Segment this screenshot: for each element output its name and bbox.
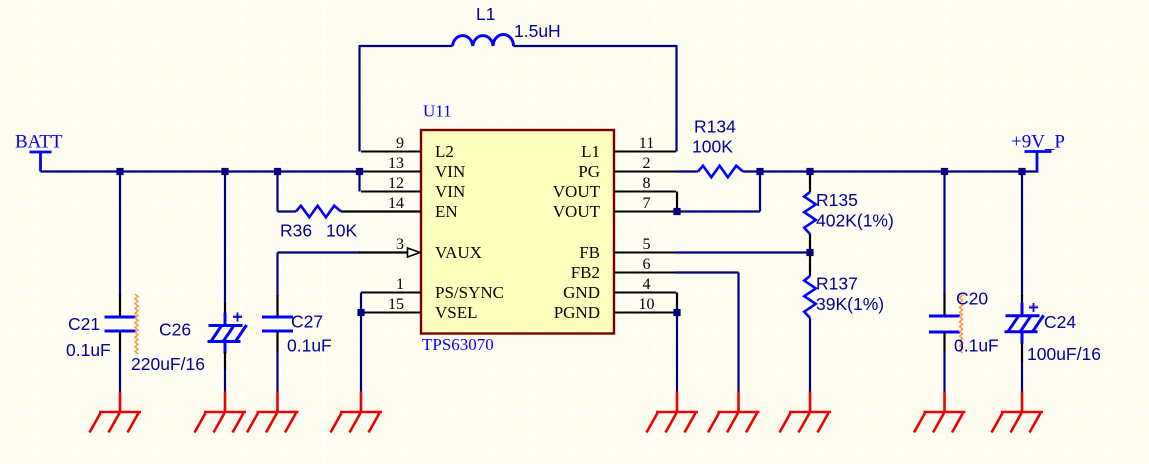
- wire rail down to R135: [809, 172, 811, 193]
- svg-text:C24: C24: [1044, 312, 1076, 332]
- svg-text:2: 2: [643, 155, 651, 172]
- svg-text:TPS63070: TPS63070: [422, 335, 494, 354]
- node junction C26/rail: [221, 168, 228, 175]
- svg-text:VAUX: VAUX: [435, 243, 482, 262]
- C26 bottom lead: [224, 352, 226, 370]
- capacitor C26 (polarized): [208, 313, 247, 354]
- resistor R137: [804, 276, 816, 318]
- capacitor C20: [929, 316, 960, 332]
- resistor R135: [804, 192, 816, 234]
- svg-text:U11: U11: [423, 102, 452, 121]
- svg-text:L1: L1: [581, 142, 600, 161]
- C26 top lead: [224, 303, 226, 314]
- svg-text:8: 8: [643, 175, 651, 192]
- svg-text:11: 11: [639, 135, 654, 152]
- svg-text:14: 14: [388, 195, 404, 212]
- ground for C27: [247, 392, 299, 433]
- wire PG to R134: [676, 170, 698, 172]
- power port BATT: [30, 152, 52, 172]
- svg-text:100uF/16: 100uF/16: [1027, 344, 1101, 364]
- C20 bottom lead: [943, 332, 945, 352]
- wire R36 right lead to pin 14: [341, 210, 421, 212]
- ground for C20: [914, 392, 966, 433]
- wire BATT rail: [41, 170, 363, 172]
- svg-text:+9V_P: +9V_P: [1011, 132, 1065, 153]
- wire rail down to C20: [943, 172, 945, 296]
- wire right rail: [760, 170, 1039, 172]
- wire FB2 down to ground: [737, 273, 739, 393]
- svg-text:EN: EN: [435, 202, 458, 221]
- wire pin 4 corner down: [676, 293, 678, 313]
- node junction R134/rail: [756, 168, 763, 175]
- pin 5 (right): [614, 252, 676, 254]
- C27 top lead: [276, 295, 278, 317]
- svg-text:PGND: PGND: [554, 303, 600, 322]
- wire rail down to C26: [224, 172, 226, 305]
- pin 7 (right): [614, 211, 676, 213]
- svg-text:VSEL: VSEL: [435, 303, 478, 322]
- wire rail down at R134 node: [759, 172, 761, 212]
- wire pin 8 corner down: [676, 192, 678, 212]
- svg-text:6: 6: [643, 256, 651, 273]
- pin 3 (left): [361, 252, 421, 254]
- C24 top lead: [1021, 295, 1023, 304]
- wire rail down to C21: [119, 172, 121, 297]
- wire R137 bottom to ground: [809, 318, 811, 392]
- wire R135 bottom lead: [809, 234, 811, 253]
- svg-text:VIN: VIN: [435, 182, 465, 201]
- pin 3 input arrow: [408, 248, 421, 257]
- svg-text:L1: L1: [476, 4, 495, 24]
- svg-text:10: 10: [639, 296, 655, 313]
- C27 bottom lead: [276, 331, 278, 352]
- svg-text:L2: L2: [435, 142, 454, 161]
- svg-text:39K(1%): 39K(1%): [816, 294, 884, 314]
- pin 1 (left): [361, 292, 421, 294]
- wire GND node to ground: [676, 313, 678, 393]
- svg-text:3: 3: [396, 236, 404, 253]
- C21 top lead: [119, 295, 121, 317]
- node junction C24/rail: [1018, 168, 1025, 175]
- wire VOUT row: [677, 210, 760, 212]
- ground for C24: [992, 392, 1044, 433]
- pin 15 (left): [361, 312, 421, 314]
- wire VAUX pin segment: [359, 251, 408, 253]
- resistor R36: [296, 206, 341, 218]
- ground for FB2: [708, 392, 760, 433]
- wire pin1 to pin15 vertical: [360, 293, 362, 313]
- node junction rail/R135: [806, 168, 813, 175]
- svg-text:1: 1: [396, 276, 404, 293]
- svg-text:VOUT: VOUT: [553, 202, 601, 221]
- pin 9 (left): [361, 151, 421, 153]
- pin 6 (right): [614, 272, 676, 274]
- svg-text:12: 12: [388, 175, 404, 192]
- wire C21 bottom to ground: [119, 351, 121, 392]
- pin 14 (left): [361, 211, 421, 213]
- node junction VOUT pins: [673, 208, 680, 215]
- node junction FB divider: [806, 249, 813, 256]
- resistor R134: [698, 166, 743, 178]
- svg-text:VIN: VIN: [435, 162, 465, 181]
- svg-text:4: 4: [643, 276, 651, 293]
- C21 bottom lead: [119, 331, 121, 352]
- capacitor C24 (polarized): [1005, 303, 1044, 344]
- pin 11 (right): [614, 151, 676, 153]
- svg-text:R137: R137: [816, 274, 858, 294]
- node junction pin15: [357, 309, 364, 316]
- wire left vertical from loop to pin 9: [358, 45, 360, 152]
- capacitor C21: [105, 317, 136, 331]
- svg-text:1.5uH: 1.5uH: [514, 21, 561, 41]
- wire C24 bottom to ground: [1021, 361, 1023, 392]
- wire R36 left lead: [278, 210, 297, 212]
- svg-text:R36: R36: [280, 221, 312, 241]
- svg-text:15: 15: [388, 296, 404, 313]
- ground for GND/PGND: [647, 392, 699, 433]
- svg-text:220uF/16: 220uF/16: [131, 354, 205, 374]
- node junction C21/rail: [116, 168, 123, 175]
- power port +9V_P: [1025, 152, 1052, 172]
- ground for C26: [195, 392, 247, 433]
- wire C27 bottom to ground: [276, 351, 278, 392]
- C20 top lead: [943, 294, 945, 316]
- node junction R36/rail: [274, 168, 281, 175]
- ground for R137: [780, 392, 832, 433]
- svg-text:PS/SYNC: PS/SYNC: [435, 283, 504, 302]
- svg-text:C26: C26: [159, 320, 191, 340]
- svg-text:BATT: BATT: [15, 132, 63, 153]
- svg-text:C20: C20: [956, 289, 988, 309]
- svg-text:13: 13: [388, 155, 404, 172]
- pin 2 (right): [614, 171, 676, 173]
- svg-text:10K: 10K: [326, 221, 357, 241]
- svg-text:R135: R135: [816, 190, 858, 210]
- wire R137 top lead: [809, 253, 811, 277]
- wire R134 to rail: [743, 170, 760, 172]
- wire VAUX down to C27: [276, 253, 278, 297]
- C24 bottom lead: [1021, 343, 1023, 362]
- svg-text:9: 9: [396, 135, 404, 152]
- wire C20 bottom to ground: [943, 351, 945, 392]
- wire rail to pin 12 vertical: [358, 172, 360, 192]
- pin 8 (right): [614, 191, 676, 193]
- pin 13 (left): [361, 171, 421, 173]
- C21 orange marker: [135, 294, 138, 354]
- svg-text:C21: C21: [68, 314, 100, 334]
- node junction C20/rail: [941, 168, 948, 175]
- svg-text:0.1uF: 0.1uF: [954, 336, 999, 356]
- capacitor C27: [262, 317, 293, 331]
- ground for PS/SYNC,VSEL: [331, 392, 383, 433]
- ground for C21: [90, 392, 142, 433]
- svg-text:FB2: FB2: [571, 263, 600, 282]
- svg-text:PG: PG: [578, 162, 600, 181]
- wire inductor to L1 pin (top-right segment): [514, 45, 677, 47]
- IC U11 TPS63070: [421, 130, 614, 334]
- svg-text:7: 7: [643, 195, 651, 212]
- svg-text:0.1uF: 0.1uF: [66, 340, 111, 360]
- wire VSEL node down to ground: [360, 313, 362, 393]
- svg-text:100K: 100K: [692, 137, 733, 157]
- wire rail down to R36: [276, 172, 278, 212]
- pin 4 (right): [614, 292, 676, 294]
- wire right vertical from loop to pin 11: [675, 45, 677, 152]
- wire L2 to inductor (top-left segment): [360, 45, 453, 47]
- svg-text:GND: GND: [563, 283, 600, 302]
- inductor L1: [453, 34, 514, 46]
- svg-text:402K(1%): 402K(1%): [816, 211, 894, 231]
- wire VAUX horizontal: [278, 251, 361, 253]
- C20 orange marker: [960, 293, 963, 353]
- svg-text:VOUT: VOUT: [553, 182, 601, 201]
- pin 12 (left): [361, 191, 421, 193]
- wire FB2 horizontal: [676, 271, 739, 273]
- svg-text:C27: C27: [291, 312, 323, 332]
- svg-text:FB: FB: [579, 243, 600, 262]
- pin 10 (right): [614, 312, 676, 314]
- wire rail down to C24: [1021, 172, 1023, 297]
- node junction PGND: [673, 309, 680, 316]
- svg-text:0.1uF: 0.1uF: [287, 336, 332, 356]
- svg-text:5: 5: [643, 236, 651, 253]
- node junction VIN/rail: [356, 168, 363, 175]
- svg-text:R134: R134: [694, 117, 736, 137]
- wire C26 bottom to ground: [224, 369, 226, 392]
- wire FB to divider: [676, 251, 810, 253]
